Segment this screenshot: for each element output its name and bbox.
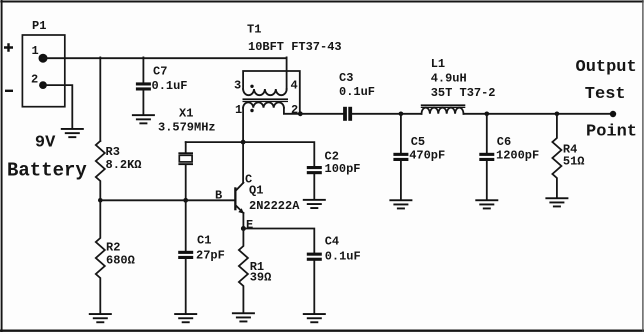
svg-text:680Ω: 680Ω <box>106 253 135 267</box>
svg-text:C6: C6 <box>497 135 511 149</box>
svg-text:2: 2 <box>31 73 38 87</box>
svg-text:27pF: 27pF <box>196 249 225 263</box>
svg-text:0.1uF: 0.1uF <box>152 79 188 93</box>
svg-text:Point: Point <box>586 122 637 141</box>
svg-text:3: 3 <box>234 78 241 92</box>
svg-text:470pF: 470pF <box>409 148 445 162</box>
svg-text:Output: Output <box>576 58 637 77</box>
svg-text:T1: T1 <box>247 23 261 37</box>
svg-text:39Ω: 39Ω <box>250 270 272 284</box>
svg-text:2N2222A: 2N2222A <box>249 199 300 213</box>
svg-text:L1: L1 <box>431 57 445 71</box>
svg-text:2: 2 <box>291 103 298 117</box>
svg-text:0.1uF: 0.1uF <box>339 85 375 99</box>
svg-text:B: B <box>215 188 222 202</box>
svg-text:4.9uH: 4.9uH <box>431 72 467 86</box>
svg-text:C4: C4 <box>325 234 339 248</box>
svg-text:9V: 9V <box>35 133 56 152</box>
svg-text:1: 1 <box>235 103 242 117</box>
svg-text:51Ω: 51Ω <box>563 154 585 168</box>
svg-text:E: E <box>246 218 253 232</box>
svg-text:1200pF: 1200pF <box>496 148 539 162</box>
svg-text:C5: C5 <box>411 135 425 149</box>
svg-text:P1: P1 <box>32 19 46 33</box>
svg-text:X1: X1 <box>179 107 193 121</box>
svg-text:Q1: Q1 <box>249 184 263 198</box>
svg-text:Battery: Battery <box>7 160 87 182</box>
svg-text:0.1uF: 0.1uF <box>325 249 361 263</box>
svg-text:100pF: 100pF <box>325 162 361 176</box>
svg-text:4: 4 <box>291 78 298 92</box>
svg-text:10BFT FT37-43: 10BFT FT37-43 <box>248 40 342 54</box>
svg-text:C1: C1 <box>197 234 211 248</box>
svg-text:C3: C3 <box>339 71 353 85</box>
svg-text:1: 1 <box>32 44 39 58</box>
svg-text:3.579MHz: 3.579MHz <box>158 121 216 135</box>
svg-text:8.2KΩ: 8.2KΩ <box>106 158 142 172</box>
svg-text:35T T37-2: 35T T37-2 <box>431 86 496 100</box>
svg-text:C7: C7 <box>153 64 167 78</box>
svg-text:Test: Test <box>585 85 626 104</box>
